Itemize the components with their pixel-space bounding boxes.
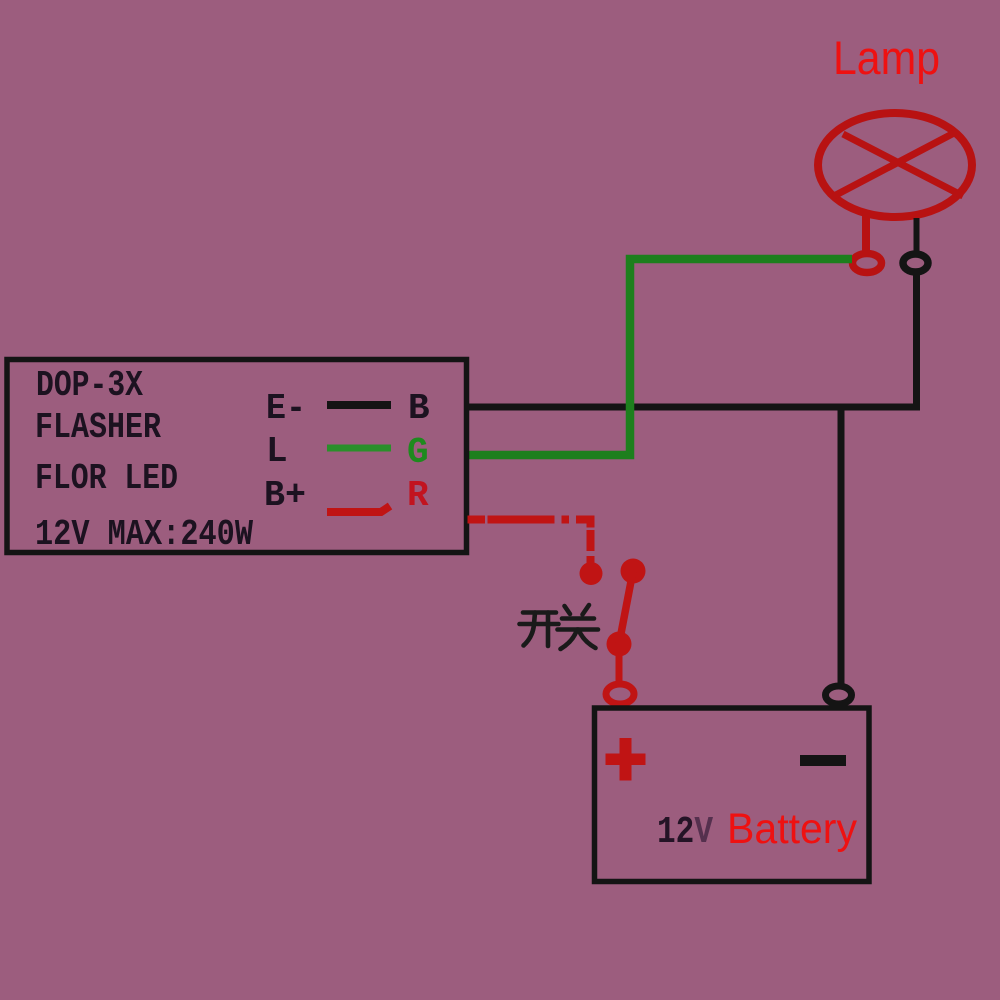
- svg-text:FLOR LED: FLOR LED: [35, 458, 178, 499]
- 开: [523, 610, 556, 615]
- lamp left terminal: [853, 254, 882, 273]
- svg-text:R: R: [407, 475, 429, 516]
- battery minus sign: [800, 755, 846, 766]
- battery minus terminal: [826, 686, 852, 704]
- svg-text:Lamp: Lamp: [833, 31, 940, 84]
- svg-text:B: B: [408, 388, 430, 429]
- battery plus sign: [606, 738, 646, 781]
- svg-text:DOP-3X: DOP-3X: [36, 365, 143, 406]
- wire sample red: [327, 506, 390, 512]
- lamp left lead: [862, 214, 870, 252]
- svg-text:G: G: [407, 432, 429, 473]
- switch lower dot: [607, 632, 632, 657]
- svg-text:L: L: [266, 431, 288, 472]
- svg-text:12V MAX:240W: 12V MAX:240W: [35, 514, 253, 555]
- label 开关 (switch): [520, 605, 599, 649]
- lamp right lead: [914, 218, 920, 254]
- switch lever: [619, 571, 633, 644]
- green wire G: lamp to flasher L: [467, 259, 852, 455]
- lamp L1: [818, 113, 972, 217]
- svg-text:B+: B+: [264, 475, 306, 516]
- red wire R dashed: flasher B+ to switch: [468, 520, 591, 574]
- 关: [565, 606, 571, 614]
- switch to battery lead: [616, 644, 623, 682]
- battery plus terminal: [606, 684, 634, 704]
- switch pole dot: [580, 562, 603, 585]
- battery BT1: [595, 708, 870, 882]
- switch throw dot: [621, 559, 646, 584]
- wire sample black: [327, 401, 391, 409]
- black wire B: lamp to flasher E-: [468, 272, 917, 407]
- switch S1: [580, 559, 646, 657]
- lamp right terminal: [903, 254, 928, 272]
- flasher module U1: [7, 360, 467, 553]
- svg-text:E-: E-: [266, 388, 306, 429]
- black wire to battery minus: [838, 404, 845, 684]
- svg-text:FLASHER: FLASHER: [35, 407, 161, 448]
- svg-text:12V: 12V: [657, 811, 713, 854]
- wire sample green: [327, 445, 391, 452]
- svg-text:Battery: Battery: [727, 805, 857, 853]
